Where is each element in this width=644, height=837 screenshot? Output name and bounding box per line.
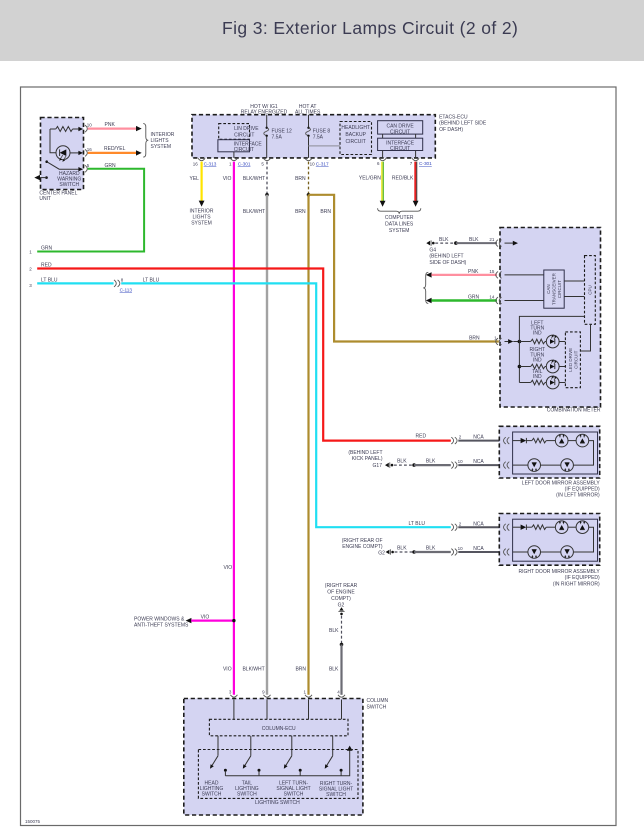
svg-text:SWITCH: SWITCH bbox=[59, 182, 79, 188]
bus arrow up bbox=[347, 746, 353, 751]
hazard switch blade bbox=[45, 160, 78, 169]
inline connector 10 on BLK (mirror) bbox=[451, 546, 463, 555]
wire fuse 8 to headlight backup circuit bbox=[309, 145, 341, 147]
connector pin 5 bbox=[85, 163, 90, 172]
interface circuit box (right) bbox=[378, 138, 423, 152]
column switch box bbox=[184, 699, 363, 816]
svg-text:RED/YEL: RED/YEL bbox=[104, 146, 126, 152]
svg-text:IND: IND bbox=[533, 374, 542, 380]
svg-text:BLK: BLK bbox=[329, 667, 339, 673]
svg-text:SWITCH: SWITCH bbox=[237, 792, 257, 798]
svg-text:UNIT: UNIT bbox=[39, 196, 51, 202]
arrow at pin 16 bbox=[78, 151, 83, 155]
svg-text:BLK: BLK bbox=[329, 628, 339, 634]
svg-text:(BEHIND LEFT SIDE: (BEHIND LEFT SIDE bbox=[439, 121, 487, 127]
svg-text:Fig 3: Exterior Lamps Circuit: Fig 3: Exterior Lamps Circuit (2 of 2) bbox=[222, 18, 518, 38]
fuse 8 7.5A bbox=[306, 115, 331, 158]
svg-text:(IF EQUIPPED): (IF EQUIPPED) bbox=[565, 575, 600, 581]
svg-text:BRN: BRN bbox=[320, 209, 331, 215]
hazard warning switch box (center panel unit) bbox=[41, 118, 84, 190]
connector meter pin 21 bbox=[496, 240, 502, 247]
svg-text:VIO: VIO bbox=[224, 565, 233, 571]
wire LED3 to left edge (left mirror) bbox=[513, 464, 528, 466]
wire NCA to right mirror top bbox=[458, 521, 505, 527]
connector pin 5 etacs bbox=[261, 158, 270, 166]
inline connector 2 on LT BLU bbox=[451, 521, 462, 530]
svg-text:HEADLIGHT: HEADLIGHT bbox=[341, 125, 370, 131]
svg-text:(IF EQUIPPED): (IF EQUIPPED) bbox=[565, 487, 600, 493]
wire LED4 to LED3 right mirror bbox=[541, 551, 561, 553]
junction G4 BLK bbox=[454, 241, 458, 245]
svg-text:SYSTEM: SYSTEM bbox=[389, 228, 410, 234]
svg-text:LEFT DOOR MIRROR ASSEMBLY: LEFT DOOR MIRROR ASSEMBLY bbox=[522, 481, 601, 487]
svg-text:GRN: GRN bbox=[468, 295, 480, 301]
connector pin 16 bbox=[85, 147, 92, 156]
junction BLK/WHT bbox=[265, 193, 269, 197]
wire BRN branch to combination meter bbox=[309, 195, 499, 342]
label right turn-signal light switch bbox=[319, 781, 353, 798]
label tail lighting switch bbox=[235, 781, 259, 798]
svg-text:10: 10 bbox=[458, 459, 464, 464]
hazard switch common lead with left arrow bbox=[34, 175, 48, 180]
svg-text:IND: IND bbox=[533, 358, 542, 364]
wire BLK/WHT solid (down to column switch) bbox=[243, 195, 267, 695]
right turn-signal switch bbox=[325, 736, 333, 769]
connector pin 10 etacs bbox=[305, 158, 329, 166]
label center panel unit bbox=[39, 190, 77, 202]
LED 1 right mirror bbox=[555, 521, 568, 534]
wire VIO pin 1 (down to column switch) bbox=[223, 162, 234, 695]
brace interior lights system bbox=[143, 124, 148, 158]
label head lighting switch bbox=[200, 781, 224, 798]
LED drive circuit box bbox=[565, 332, 580, 388]
LED 2 left mirror bbox=[576, 434, 589, 447]
svg-text:BLK: BLK bbox=[439, 237, 449, 243]
diode left mirror bbox=[513, 438, 532, 443]
svg-text:7.5A: 7.5A bbox=[313, 135, 324, 141]
svg-text:BLK: BLK bbox=[469, 237, 479, 243]
connector column pin 4 bbox=[337, 690, 345, 698]
ground G17 bbox=[385, 462, 393, 467]
junction right turn ind bbox=[518, 365, 522, 369]
tail switch contact bbox=[258, 769, 261, 776]
wire BLK/WHT pin 5 dashed segment bbox=[243, 162, 267, 195]
label behind left kick panel bbox=[348, 450, 383, 469]
svg-text:LED DRIVE: LED DRIVE bbox=[568, 348, 573, 372]
svg-text:BLK/WHT: BLK/WHT bbox=[243, 209, 265, 215]
connector column pin 9 bbox=[262, 690, 270, 698]
svg-text:RED/BLK: RED/BLK bbox=[392, 175, 414, 181]
svg-text:BLK: BLK bbox=[397, 459, 407, 465]
LED right turn ind bbox=[546, 359, 559, 373]
ground G2 (right mirror) bbox=[386, 549, 394, 554]
svg-text:VIO: VIO bbox=[201, 614, 210, 620]
LED tail ind bbox=[546, 375, 559, 389]
title bar bbox=[0, 0, 644, 61]
svg-text:(RIGHT REAR: (RIGHT REAR bbox=[325, 583, 358, 589]
node 3 LT BLU left edge bbox=[29, 277, 58, 288]
label column switch bbox=[367, 698, 389, 710]
svg-text:21: 21 bbox=[489, 237, 495, 242]
svg-text:LIGHTING SWITCH: LIGHTING SWITCH bbox=[255, 800, 300, 806]
wire interface to pin 1 bbox=[233, 152, 235, 158]
svg-text:COLUMN-ECU: COLUMN-ECU bbox=[262, 726, 296, 732]
diode right mirror bbox=[513, 525, 532, 530]
svg-text:CIRCUIT: CIRCUIT bbox=[234, 132, 254, 138]
svg-text:10: 10 bbox=[87, 123, 93, 128]
svg-text:FUSE 8: FUSE 8 bbox=[313, 128, 331, 134]
meter BRN pin 1 entry bbox=[494, 335, 519, 345]
svg-text:SYSTEM: SYSTEM bbox=[151, 144, 172, 150]
connector pin 16 etacs bbox=[193, 158, 217, 166]
wire LT BLU to right door mirror bbox=[121, 277, 451, 527]
svg-text:FUSE 12: FUSE 12 bbox=[272, 128, 293, 134]
LED lamp in hazard switch bbox=[56, 146, 70, 162]
LED 3 right mirror bbox=[528, 546, 541, 559]
right turn switch contact bbox=[340, 769, 343, 776]
svg-text:SWITCH: SWITCH bbox=[326, 792, 346, 798]
wire YEL/GRN pin 6 bbox=[359, 162, 386, 207]
svg-text:BLK/WHT: BLK/WHT bbox=[242, 667, 264, 673]
svg-text:BLK: BLK bbox=[397, 546, 407, 552]
label tail ind bbox=[532, 369, 542, 380]
left door mirror assembly box bbox=[499, 426, 599, 478]
wire LED3 to left edge (right mirror) bbox=[513, 551, 528, 553]
svg-text:BLK/WHT: BLK/WHT bbox=[243, 176, 265, 182]
svg-text:YEL: YEL bbox=[190, 176, 200, 182]
links CAN drive to interface bbox=[383, 134, 416, 138]
svg-text:VIO: VIO bbox=[223, 176, 232, 182]
svg-text:IND: IND bbox=[533, 330, 542, 336]
svg-text:LIN DRIVE: LIN DRIVE bbox=[234, 126, 259, 132]
wire GRN hazard pin 5 bbox=[37, 163, 144, 252]
svg-text:GRN: GRN bbox=[105, 163, 117, 169]
svg-text:16: 16 bbox=[87, 147, 93, 152]
svg-text:OF ENGINE: OF ENGINE bbox=[327, 590, 355, 596]
svg-text:LT BLU: LT BLU bbox=[143, 277, 160, 283]
inline connector 2 on RED bbox=[451, 435, 462, 444]
svg-text:16: 16 bbox=[193, 161, 199, 166]
LED 1 left mirror bbox=[555, 434, 568, 447]
connector column pin 1 bbox=[303, 690, 312, 698]
svg-text:BRN: BRN bbox=[295, 176, 306, 182]
left mirror inner unit box bbox=[513, 432, 598, 474]
interface circuit box (left) bbox=[218, 140, 263, 153]
svg-text:COMBINATION METER: COMBINATION METER bbox=[547, 408, 601, 414]
wire between LEDs right mirror bbox=[568, 526, 576, 528]
combination meter box bbox=[500, 228, 601, 408]
wire VIO branch to power windows bbox=[186, 614, 234, 623]
connector right mirror row 1 bbox=[504, 524, 510, 531]
svg-text:NCA: NCA bbox=[473, 521, 484, 527]
wire LED4 to LED3 left mirror bbox=[541, 464, 561, 466]
ground G4 bbox=[426, 240, 434, 245]
node 2 RED left edge bbox=[29, 262, 52, 271]
svg-text:CIRCUIT: CIRCUIT bbox=[557, 280, 562, 298]
svg-text:BRN: BRN bbox=[295, 667, 306, 673]
svg-text:CIRCUIT: CIRCUIT bbox=[390, 129, 410, 135]
junction G2 BLK (mirror) bbox=[412, 550, 416, 554]
svg-text:CIRCUIT: CIRCUIT bbox=[234, 147, 254, 153]
wire BLK G17 dashed bbox=[394, 459, 414, 465]
connector column pin 3 bbox=[229, 690, 238, 698]
svg-text:OF DASH): OF DASH) bbox=[439, 127, 463, 133]
resistor left mirror bbox=[532, 438, 555, 443]
ETACS-ECU box bbox=[192, 115, 435, 158]
svg-text:10: 10 bbox=[458, 546, 464, 551]
svg-text:DATA LINES: DATA LINES bbox=[385, 222, 414, 228]
svg-text:SWITCH: SWITCH bbox=[367, 705, 387, 711]
svg-text:CIRCUIT: CIRCUIT bbox=[390, 146, 410, 152]
label hot w/ ig1 relay energized bbox=[241, 104, 288, 115]
svg-text:COLUMN: COLUMN bbox=[367, 698, 389, 704]
svg-text:BRN: BRN bbox=[469, 335, 480, 341]
svg-text:C-313: C-313 bbox=[204, 161, 217, 166]
label left turn-signal light switch bbox=[276, 781, 310, 798]
resistor tail ind bbox=[519, 380, 546, 385]
svg-text:BRN: BRN bbox=[295, 209, 306, 215]
wire BRN pin 10 dashed segment bbox=[295, 162, 308, 195]
label right rear of engine compt (mirror) bbox=[342, 538, 385, 557]
svg-text:CAN: CAN bbox=[546, 284, 551, 294]
svg-text:BACKUP: BACKUP bbox=[345, 132, 366, 138]
wires pins to column-ecu bbox=[234, 700, 342, 720]
meter internal bus to CPU bbox=[519, 316, 584, 382]
connector meter pin 14 bbox=[496, 297, 502, 304]
connector right mirror row 2 bbox=[504, 549, 510, 556]
links CAN transceiver to CPU bbox=[564, 281, 584, 297]
wire NCA to right mirror bottom bbox=[458, 546, 505, 552]
junction G17 BLK bbox=[412, 463, 416, 467]
LED left turn ind bbox=[546, 334, 559, 348]
svg-text:PNK: PNK bbox=[468, 269, 479, 275]
headlight backup circuit box bbox=[340, 122, 372, 155]
svg-text:SYSTEM: SYSTEM bbox=[191, 220, 212, 226]
connector meter pin 15 bbox=[496, 272, 502, 279]
lighting switch box bbox=[198, 750, 358, 799]
wires interface to pins 6 and 7 bbox=[383, 151, 416, 158]
junction BRN bbox=[307, 193, 311, 197]
junction VIO bbox=[232, 619, 235, 622]
head lighting switch bbox=[210, 736, 218, 769]
junction left turn ind bbox=[518, 340, 522, 344]
label right rear of engine compt G2 (column) bbox=[325, 583, 358, 608]
svg-text:(BEHIND LEFT: (BEHIND LEFT bbox=[429, 254, 463, 260]
wire BLK G2 solid to column switch pin 4 bbox=[340, 645, 342, 695]
connector C-113 pin 8 bbox=[114, 278, 132, 293]
underbrace computer data lines bbox=[378, 208, 421, 214]
svg-text:YEL/GRN: YEL/GRN bbox=[359, 175, 381, 181]
resistor R (hazard illumination) bbox=[50, 127, 79, 132]
svg-text:POWER WINDOWS &: POWER WINDOWS & bbox=[134, 616, 185, 622]
wire BLK G17 solid bbox=[414, 459, 451, 465]
LED 4 left mirror bbox=[561, 459, 574, 472]
arrow at pin 5 bbox=[78, 167, 83, 171]
svg-text:10: 10 bbox=[310, 161, 316, 166]
connector pin 6 etacs bbox=[377, 158, 386, 166]
svg-text:G2: G2 bbox=[338, 602, 345, 608]
connector pin 7 etacs bbox=[410, 158, 432, 166]
wire LED to led drive box (tail) bbox=[559, 382, 565, 384]
CAN transceiver circuit box bbox=[544, 270, 564, 308]
wire LED2 to right edge and down (left mirror) bbox=[573, 441, 593, 466]
meter wires pins 15/14 to CAN transceiver bbox=[505, 275, 544, 301]
svg-text:SWITCH: SWITCH bbox=[202, 792, 222, 798]
wire NCA to left mirror top bbox=[458, 435, 505, 441]
svg-text:RED: RED bbox=[416, 434, 427, 440]
connector left mirror row 1 bbox=[504, 437, 510, 444]
LIN drive circuit box bbox=[219, 124, 260, 140]
wire BRN solid (down to column switch) bbox=[295, 195, 308, 695]
wire labels above column switch bbox=[223, 667, 339, 673]
wire BLK G4 solid to meter pin 21 bbox=[456, 237, 497, 243]
wire RED/BLK pin 7 bbox=[392, 162, 419, 207]
svg-text:G17: G17 bbox=[373, 463, 383, 469]
svg-text:G4: G4 bbox=[429, 248, 436, 254]
label right turn ind bbox=[530, 347, 546, 364]
svg-text:14: 14 bbox=[489, 295, 495, 300]
arrow at pin 10 bbox=[78, 127, 83, 131]
svg-text:NCA: NCA bbox=[473, 546, 484, 552]
wire BLK G2 dashed (column) bbox=[329, 616, 341, 645]
svg-text:CIRCUIT: CIRCUIT bbox=[346, 139, 366, 145]
resistor right turn ind bbox=[519, 364, 546, 369]
wire RED to left door mirror bbox=[37, 269, 451, 441]
wire PNK meter pin 15 bbox=[426, 269, 497, 278]
connector pin 10 bbox=[85, 123, 92, 133]
svg-text:(IN RIGHT MIRROR): (IN RIGHT MIRROR) bbox=[553, 581, 600, 587]
wire lamp to pin 16 bbox=[70, 152, 79, 154]
svg-text:ANTI-THEFT SYSTEMS: ANTI-THEFT SYSTEMS bbox=[134, 623, 189, 629]
CPU box bbox=[585, 256, 596, 325]
LED 4 right mirror bbox=[561, 546, 574, 559]
right mirror inner unit box bbox=[513, 519, 598, 561]
svg-text:CIRCUIT: CIRCUIT bbox=[573, 350, 578, 368]
svg-text:PNK: PNK bbox=[105, 122, 116, 128]
svg-text:(IN LEFT MIRROR): (IN LEFT MIRROR) bbox=[556, 493, 600, 499]
resistor right mirror bbox=[532, 525, 555, 530]
label hot at all times bbox=[295, 104, 321, 115]
wire between LEDs left mirror bbox=[568, 440, 576, 442]
svg-text:VIO: VIO bbox=[223, 667, 232, 673]
fuse 12 7.5A bbox=[264, 115, 292, 158]
svg-text:GRN: GRN bbox=[41, 245, 53, 251]
svg-text:NCA: NCA bbox=[473, 459, 484, 465]
label interior lights system (top) bbox=[151, 132, 175, 150]
label left turn ind bbox=[530, 320, 544, 336]
resistor left turn ind bbox=[519, 339, 546, 344]
wire LT BLU (left of C-113) bbox=[37, 282, 113, 284]
switch common bus bbox=[225, 750, 349, 775]
label G4 behind left side of dash bbox=[429, 248, 466, 266]
svg-text:LT BLU: LT BLU bbox=[409, 521, 426, 527]
svg-text:C-301: C-301 bbox=[419, 161, 432, 166]
svg-text:BLK: BLK bbox=[426, 459, 436, 465]
svg-text:C-317: C-317 bbox=[316, 161, 329, 166]
svg-text:ETACS-ECU: ETACS-ECU bbox=[439, 114, 468, 120]
svg-text:COMPT): COMPT) bbox=[331, 596, 351, 602]
svg-text:KICK PANEL): KICK PANEL) bbox=[352, 456, 383, 462]
svg-text:BLK: BLK bbox=[426, 546, 436, 552]
CAN drive circuit box bbox=[378, 121, 423, 136]
svg-text:15: 15 bbox=[489, 269, 495, 274]
label interior lights system (below YEL) bbox=[190, 208, 214, 226]
svg-text:RIGHT DOOR MIRROR ASSEMBLY: RIGHT DOOR MIRROR ASSEMBLY bbox=[518, 569, 600, 575]
label computer data lines system bbox=[385, 215, 414, 234]
LED 2 right mirror bbox=[576, 521, 589, 534]
wire PNK hazard to interior lights bbox=[88, 122, 142, 131]
column-ecu box bbox=[209, 719, 348, 736]
svg-text:COMPUTER: COMPUTER bbox=[385, 215, 414, 221]
left turn switch contact bbox=[299, 769, 302, 776]
LED 3 left mirror bbox=[528, 459, 541, 472]
svg-text:SIDE OF DASH): SIDE OF DASH) bbox=[429, 260, 466, 266]
wire BLK G2 solid (mirror) bbox=[414, 546, 451, 552]
meter internal ground arrow pin 21 bbox=[505, 241, 519, 246]
ground G2 (column) bbox=[338, 607, 344, 615]
connector pin 1 etacs bbox=[229, 158, 251, 166]
svg-text:G2: G2 bbox=[378, 551, 385, 557]
tail lighting switch bbox=[243, 736, 251, 769]
brace PNK GRN system bbox=[423, 272, 428, 303]
wire BLK G4 dashed bbox=[435, 237, 456, 243]
wire resistor to lamp bbox=[50, 129, 56, 153]
wire YEL pin 16 bbox=[190, 162, 205, 207]
wire BLK G2 dashed (mirror) bbox=[395, 546, 415, 552]
svg-text:ENGINE COMPT): ENGINE COMPT) bbox=[342, 544, 383, 550]
svg-text:CPU: CPU bbox=[588, 285, 593, 295]
wire LED to led drive box (left turn) bbox=[559, 341, 565, 343]
svg-text:150075: 150075 bbox=[25, 819, 41, 824]
wire RED/YEL hazard to interior lights bbox=[88, 146, 142, 155]
wire NCA to left mirror bottom bbox=[458, 459, 505, 465]
svg-text:NCA: NCA bbox=[473, 435, 484, 441]
svg-text:C-301: C-301 bbox=[238, 161, 251, 166]
svg-text:SWITCH: SWITCH bbox=[284, 792, 304, 798]
wire LED2 to right edge and down (right mirror) bbox=[573, 527, 593, 552]
svg-text:TRANSCEIVER: TRANSCEIVER bbox=[552, 272, 557, 305]
svg-text:RELAY ENERGIZED: RELAY ENERGIZED bbox=[241, 109, 288, 115]
label etacs-ecu location bbox=[439, 114, 487, 133]
svg-text:C-113: C-113 bbox=[120, 287, 133, 292]
wire GRN meter pin 14 bbox=[426, 295, 497, 304]
label right door mirror assembly bbox=[518, 569, 600, 587]
inline connector 10 on BLK bbox=[451, 459, 463, 468]
connector left mirror row 2 bbox=[504, 462, 510, 469]
left turn-signal switch bbox=[284, 736, 292, 769]
svg-text:ALL TIMES: ALL TIMES bbox=[295, 109, 321, 115]
right door mirror assembly box bbox=[499, 514, 599, 566]
junction G2 BLK (column) bbox=[340, 643, 344, 647]
node 1 GRN left edge bbox=[29, 245, 52, 254]
svg-text:7.5A: 7.5A bbox=[272, 135, 283, 141]
head switch contact bbox=[224, 769, 227, 776]
label left door mirror assembly bbox=[522, 481, 601, 499]
label power windows anti-theft bbox=[134, 616, 189, 628]
label hazard warning switch bbox=[57, 171, 81, 188]
link CPU to LED drive circuit bbox=[580, 324, 590, 351]
wire LED to led drive box (right turn) bbox=[559, 366, 565, 368]
